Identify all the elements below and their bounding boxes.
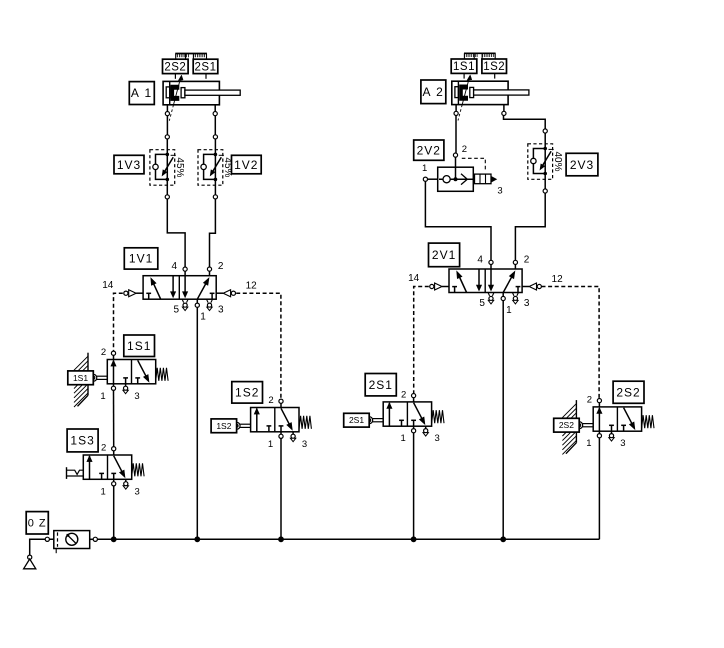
cylinder A2 measuring ruler: [464, 52, 496, 54]
svg-text:1S1: 1S1: [73, 373, 88, 383]
5/2-way valve 1V1 top port lines: [184, 269, 186, 276]
3/2-way valve 1S3 exhaust port 3: [125, 479, 127, 481]
flow control 1V2 bypass check valve: [204, 154, 216, 179]
cylinder A1 measuring ruler: [175, 53, 207, 55]
cylinder A2 sensor label 1S2: [482, 59, 507, 73]
svg-text:0 Z: 0 Z: [28, 518, 47, 530]
cylinder A2 ruler ticks: [463, 73, 465, 78]
svg-text:3: 3: [218, 305, 224, 316]
5/2-way valve 2V1 right position flow paths: [503, 277, 511, 292]
wire 2S2 port 1 to supply bus (right riser): [598, 438, 600, 539]
pilot line 1V1-12 to 1S2 (dashed): [236, 293, 281, 399]
3/2-way valve 2S2 exhaust port 3: [611, 431, 613, 433]
cylinder A2 position sensing arrow: [462, 77, 469, 104]
svg-text:45%: 45%: [174, 157, 185, 177]
cylinder label A2: [421, 80, 446, 104]
flow control 1V3 port connections: [165, 135, 169, 139]
cylinder label A1: [129, 82, 154, 105]
5/2-way valve 2V1 left position flow paths: [460, 278, 467, 293]
wire 1S1 port 1 to 1S3 port 2: [113, 391, 115, 447]
cylinder A1 sensor label 2S2: [163, 59, 189, 73]
3/2-way valve 1S3 port 2 connection: [112, 447, 116, 451]
label 2S2: [613, 381, 644, 403]
supply unit right port connection: [90, 538, 98, 540]
svg-text:3: 3: [620, 438, 625, 449]
valve 1S1 roller plunger: [97, 375, 108, 377]
valve 1S1 actuating cam wall: [87, 353, 89, 396]
cylinder A2 port connections: [454, 111, 458, 115]
cylinder A1 position sensing arrow: [174, 78, 181, 105]
5/2-way valve 2V1 port 1 line: [502, 293, 504, 299]
flow control 1V2 main line: [214, 137, 216, 197]
svg-text:2V3: 2V3: [570, 158, 594, 172]
wire A2 left port to quick exhaust 2V2: [455, 116, 457, 153]
5/2-way valve 1V1 pilot 12 (right): [216, 292, 223, 294]
svg-text:2: 2: [101, 443, 106, 454]
3/2-way valve 2S1 right position (flow 2-3): [414, 403, 422, 419]
svg-text:2: 2: [218, 261, 224, 272]
5/2-way valve 1V1 body: [143, 276, 216, 300]
svg-text:2S1: 2S1: [369, 378, 393, 392]
wire A1 right port to flow control 1V2: [214, 116, 216, 135]
flow control 1V2 throttle arrow: [213, 157, 221, 171]
label 0Z: [26, 512, 48, 534]
3/2-way valve 1S1 port 2 connection: [111, 351, 115, 355]
svg-text:2S2: 2S2: [164, 61, 186, 73]
wire 2V3 to valve 2V1 port 2: [515, 193, 545, 260]
cylinder A1 body: [163, 81, 219, 104]
pilot line 2V1-14 to 2S1 (dashed): [414, 287, 429, 394]
cylinder A1 ruler ticks: [174, 74, 176, 79]
svg-text:1: 1: [100, 391, 105, 402]
3/2-way valve 1S2 port 1 connection: [280, 432, 282, 434]
bus junction 1S2: [278, 536, 284, 542]
quick exhaust valve 2V2 internals: [439, 178, 473, 180]
5/2-way valve 1V1 exhaust port 5: [182, 299, 184, 302]
valve 2S2 roller: [576, 422, 583, 429]
svg-text:5: 5: [174, 305, 180, 316]
flow control 1V2 dashed enclosure: [198, 150, 223, 186]
3/2-way valve 1S2 body: [251, 408, 299, 432]
svg-text:1S3: 1S3: [70, 434, 94, 448]
valve 1S2 roller plunger: [240, 423, 251, 425]
valve 2S2 roller plunger: [583, 423, 594, 425]
3/2-way valve 1S1 return spring: [156, 368, 168, 381]
3/2-way valve 1S2 exhaust port 3: [292, 432, 294, 434]
wire 1S3 port 1 to supply bus: [113, 486, 115, 539]
svg-text:1V2: 1V2: [234, 158, 258, 172]
label 2V3: [566, 153, 598, 176]
svg-text:1: 1: [586, 438, 591, 449]
valve 2S1 roller plunger: [373, 418, 384, 420]
svg-text:14: 14: [102, 280, 114, 291]
5/2-way valve 1V1 left position flow paths: [154, 284, 161, 299]
label 1S3: [67, 429, 98, 452]
3/2-way valve 2S1 port 1 connection: [413, 426, 415, 428]
wire 2V2 port 1 to valve 2V1 port 4: [425, 181, 491, 260]
svg-text:2: 2: [268, 395, 273, 406]
cylinder A2 body: [452, 81, 508, 104]
svg-text:1V1: 1V1: [129, 252, 153, 266]
3/2-way valve 1S3 return spring: [132, 463, 144, 476]
3/2-way valve 1S3 right position (flow 2-3): [114, 456, 122, 472]
svg-text:3: 3: [302, 439, 307, 450]
label 1V3: [114, 155, 144, 174]
bus junction 1S3: [111, 536, 117, 542]
label 2S1: [365, 374, 396, 396]
flow control 1V2 port connections: [213, 135, 217, 139]
cylinder A2 sensor label 1S1: [451, 59, 477, 73]
svg-text:3: 3: [134, 391, 139, 402]
wire A2 right port to flow control 2V3: [504, 116, 546, 129]
3/2-way valve 2S2 return spring: [642, 415, 654, 428]
svg-text:45%: 45%: [222, 157, 233, 177]
svg-text:2S1: 2S1: [195, 61, 217, 73]
cylinder A1 piston rod: [181, 88, 185, 98]
svg-text:4: 4: [477, 254, 483, 265]
svg-text:5: 5: [479, 298, 485, 309]
svg-text:2: 2: [524, 254, 530, 265]
cylinder A1 port connections: [165, 112, 169, 116]
cylinder A2 port stubs: [455, 105, 457, 112]
compressed air source: [28, 555, 32, 559]
wire supply unit to air source: [30, 539, 54, 555]
svg-text:1S2: 1S2: [216, 421, 231, 431]
svg-text:2V1: 2V1: [432, 248, 456, 262]
3/2-way valve 1S2 port 2 connection: [279, 399, 283, 403]
svg-text:A 1: A 1: [131, 86, 153, 100]
bus junction 1V1: [194, 536, 200, 542]
5/2-way valve 1V1 port 1 line: [196, 299, 198, 305]
quick exhaust valve 2V2 port 1: [428, 178, 438, 180]
wire 2S1 port 1 to supply bus: [413, 433, 415, 539]
quick exhaust valve 2V2 pilot dash: [462, 158, 486, 170]
svg-text:1S2: 1S2: [483, 61, 505, 73]
3/2-way valve 1S1 body: [107, 360, 155, 384]
5/2-way valve 2V1 port 1 connection: [501, 296, 505, 300]
svg-text:40%: 40%: [552, 151, 563, 171]
3/2-way valve 2S1 left position (flow 1-2): [388, 403, 390, 426]
svg-text:3: 3: [135, 486, 140, 497]
flow control 2V3 throttle arrow: [543, 151, 551, 165]
wire 1S2 port 1 to supply bus: [280, 439, 282, 540]
svg-text:4: 4: [172, 261, 178, 272]
5/2-way valve 2V1 top port connections 4 2: [489, 260, 493, 264]
3/2-way valve 2S2 body: [593, 407, 641, 431]
svg-text:1S2: 1S2: [235, 386, 259, 400]
svg-text:1: 1: [422, 163, 427, 174]
svg-text:2S1: 2S1: [349, 415, 364, 425]
wire 1V3 to valve 1V1 port 4: [167, 199, 185, 267]
3/2-way valve 2S1 port 2 connection: [412, 394, 416, 398]
wire A1 left port to flow control 1V3: [166, 116, 168, 135]
flow control 1V2 junctions: [214, 153, 218, 157]
valve 1S2 roller: [233, 422, 240, 429]
valve 2S1 actuator tag 2S1: [344, 413, 370, 427]
3/2-way valve 2S2 right position (flow 2-3): [624, 408, 632, 424]
3/2-way valve 1S1 exhaust port 3: [125, 384, 127, 386]
valve 1S1 actuator tag 1S1: [68, 371, 94, 385]
5/2-way valve 1V1 port 1 connection: [195, 303, 199, 307]
svg-text:2: 2: [587, 395, 592, 406]
3/2-way valve 1S2 return spring: [299, 416, 311, 429]
cylinder A2 piston rod: [470, 87, 474, 97]
svg-text:12: 12: [246, 281, 258, 292]
flow control 2V3 dashed enclosure: [528, 144, 553, 180]
cylinder A2 piston (magnetic): [459, 85, 468, 101]
flow control 1V3 bypass check valve: [156, 154, 168, 179]
svg-text:2: 2: [401, 390, 406, 401]
cylinder A1 piston (magnetic): [171, 85, 180, 101]
svg-text:1S1: 1S1: [453, 61, 475, 73]
svg-text:1: 1: [200, 312, 206, 323]
quick exhaust valve 2V2 port 2: [455, 157, 457, 179]
3/2-way valve 2S2 left position (flow 1-2): [598, 408, 600, 431]
3/2-way valve 1S3 left position (flow 1-2): [89, 456, 91, 479]
wire 1V2 to valve 1V1 port 2: [210, 199, 216, 267]
label 1V1: [124, 248, 158, 269]
5/2-way valve 2V1 exhaust port 3: [512, 293, 514, 296]
svg-text:12: 12: [552, 274, 564, 285]
5/2-way valve 2V1 body: [449, 269, 522, 293]
quick exhaust valve 2V2 body: [438, 167, 474, 191]
flow control 2V3 port connections: [543, 129, 547, 133]
flow control 1V3 dashed enclosure: [150, 150, 175, 186]
svg-text:1: 1: [506, 305, 512, 316]
5/2-way valve 2V1 pilot 14 (left): [442, 286, 449, 288]
5/2-way valve 1V1 exhaust port 3: [207, 299, 209, 302]
5/2-way valve 1V1 top port connections 4 2: [183, 267, 187, 271]
valve 1S3 idle-return roller lever: [66, 467, 68, 479]
5/2-way valve 2V1 exhaust port 5: [488, 293, 490, 296]
svg-text:2: 2: [101, 347, 106, 358]
pilot line 1V1-14 to 1S1 (dashed): [114, 293, 123, 351]
svg-text:14: 14: [408, 273, 420, 284]
cylinder A1 sensor label 2S1: [193, 59, 218, 73]
label 2V2: [414, 140, 444, 160]
5/2-way valve 1V1 right position flow paths: [197, 284, 205, 299]
svg-text:3: 3: [497, 186, 502, 197]
svg-text:3: 3: [524, 298, 530, 309]
svg-text:1: 1: [268, 439, 273, 450]
wire 1V1 port 1 to supply bus: [196, 307, 198, 539]
3/2-way valve 1S1 port 1 connection: [113, 384, 115, 386]
3/2-way valve 1S2 left position (flow 1-2): [256, 409, 258, 432]
valve 2S2 actuator tag 2S2: [554, 418, 580, 432]
pilot line 2V1-12 to 2S2 (dashed): [542, 287, 600, 399]
svg-text:1V3: 1V3: [117, 158, 141, 172]
svg-text:3: 3: [434, 433, 439, 444]
bus junction 2V1: [500, 536, 506, 542]
quick exhaust valve 2V2 silencer port 3: [475, 174, 492, 184]
label 2V1: [429, 243, 460, 267]
svg-text:2S2: 2S2: [616, 385, 640, 399]
valve 2S1 roller: [366, 417, 373, 424]
3/2-way valve 2S2 port 2 connection: [597, 399, 601, 403]
flow control 1V3 main line: [166, 137, 168, 197]
5/2-way valve 1V1 pilot 14 (left): [136, 292, 143, 294]
valve 1S1 roller: [90, 374, 97, 381]
3/2-way valve 1S1 right position (flow 2-3): [138, 360, 146, 376]
3/2-way valve 1S2 right position (flow 2-3): [281, 408, 289, 424]
svg-text:2: 2: [462, 144, 467, 155]
3/2-way valve 1S3 port 1 connection: [113, 479, 115, 481]
supply bus line: [97, 538, 599, 540]
3/2-way valve 1S3 body: [83, 455, 131, 479]
3/2-way valve 1S1 left position (flow 1-2): [113, 361, 115, 384]
svg-text:A 2: A 2: [422, 85, 444, 99]
svg-text:2S2: 2S2: [559, 420, 574, 430]
flow control 2V3 main line: [544, 131, 546, 191]
3/2-way valve 2S1 exhaust port 3: [425, 426, 427, 428]
5/2-way valve 2V1 pilot 12 (right): [522, 286, 529, 288]
valve 1S2 actuator tag 1S2: [211, 419, 237, 433]
svg-text:1S1: 1S1: [127, 339, 151, 353]
valve 2S2 actuating cam wall: [575, 400, 577, 443]
flow control 1V3 throttle arrow: [165, 157, 173, 171]
3/2-way valve 2S1 return spring: [432, 410, 444, 423]
supply unit left port connection: [45, 537, 49, 541]
air service / shut-off unit 0Z: [54, 531, 90, 549]
svg-text:1: 1: [400, 433, 405, 444]
label 1S1: [124, 335, 155, 357]
label 1V2: [232, 155, 262, 174]
label 1S2: [232, 382, 263, 404]
svg-text:2V2: 2V2: [417, 143, 441, 157]
cylinder A1 port stubs: [166, 105, 168, 112]
flow control 2V3 junctions: [543, 147, 547, 151]
3/2-way valve 2S2 port 1 connection: [598, 431, 600, 433]
svg-text:1: 1: [101, 486, 106, 497]
wire 2V1 port 1 to supply bus: [502, 301, 504, 540]
flow control 2V3 bypass check valve: [533, 149, 545, 174]
5/2-way valve 2V1 top port lines: [490, 262, 492, 269]
bus junction 2S1: [411, 536, 417, 542]
flow control 1V3 junctions: [166, 153, 170, 157]
3/2-way valve 2S1 body: [383, 402, 431, 426]
